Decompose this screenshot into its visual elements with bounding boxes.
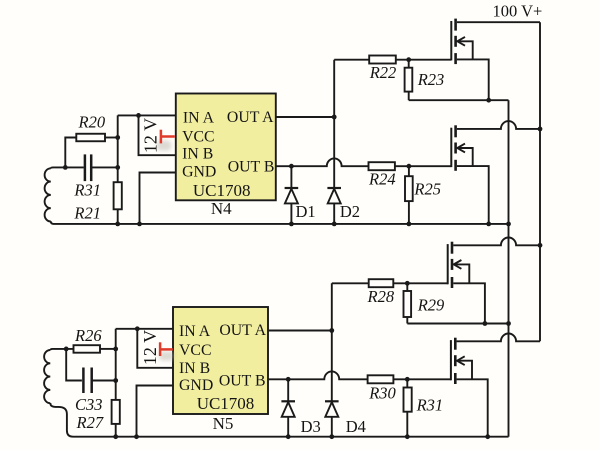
svg-text:N5: N5 <box>213 414 234 433</box>
wire OUT B <box>276 158 369 166</box>
resistor R21 <box>114 182 122 209</box>
svg-text:D4: D4 <box>346 417 366 436</box>
wire GND N5 <box>137 386 174 437</box>
diode D2 <box>327 188 341 224</box>
capacitor C33 <box>83 368 91 394</box>
transistor Q2 (second MOSFET) <box>451 121 540 224</box>
wire IN A <box>118 114 176 116</box>
svg-text:R22: R22 <box>369 63 397 82</box>
svg-text:IN A: IN A <box>179 323 211 340</box>
ground rail (top half) <box>54 223 509 225</box>
wire source node A <box>409 99 509 101</box>
resistor R24 <box>369 162 395 170</box>
svg-text:GND: GND <box>182 163 216 180</box>
node C1 <box>115 135 120 140</box>
wire R26 right <box>100 348 116 350</box>
svg-text:IN B: IN B <box>179 360 210 377</box>
svg-text:12 V: 12 V <box>140 118 160 153</box>
svg-text:OUT B: OUT B <box>228 159 275 176</box>
node E2 <box>135 326 140 331</box>
node A1 <box>63 165 68 170</box>
svg-text:R23: R23 <box>417 70 445 89</box>
wire to R22 <box>334 59 369 61</box>
node G1 <box>406 57 411 62</box>
resistor R29 <box>404 283 412 323</box>
node A2 <box>64 347 69 352</box>
node G4 <box>405 377 410 382</box>
wire stub down to C33 <box>66 349 82 381</box>
transistor Q1 (top MOSFET) <box>451 19 540 101</box>
node F1 <box>332 115 337 120</box>
node B2 <box>113 378 118 383</box>
svg-text:VCC: VCC <box>182 128 214 145</box>
node source mid <box>506 321 511 326</box>
svg-text:UC1708: UC1708 <box>193 181 251 200</box>
node GND rail bottom <box>134 434 139 439</box>
svg-text:R29: R29 <box>417 296 445 315</box>
12V supply tap (red, bottom) <box>160 342 173 356</box>
wire C33 right <box>92 380 116 382</box>
wire capacitor right <box>91 166 118 168</box>
svg-text:R31: R31 <box>416 396 444 415</box>
resistor R27 <box>112 400 120 424</box>
12V supply tap (red) <box>161 130 175 144</box>
svg-text:D1: D1 <box>296 202 316 221</box>
12V supply shadow (bottom) <box>159 352 174 361</box>
svg-text:IN B: IN B <box>182 146 213 163</box>
node C2 <box>113 347 118 352</box>
node G2 <box>407 164 412 169</box>
12V supply shadow <box>157 141 172 151</box>
svg-text:R20: R20 <box>78 113 106 132</box>
diode D1 <box>285 166 299 224</box>
svg-text:D3: D3 <box>301 417 321 436</box>
transistor Q4 (bottom MOSFET) <box>451 333 540 436</box>
svg-text:R26: R26 <box>74 326 102 345</box>
resistor R22 <box>369 56 396 64</box>
wire R24 to gate <box>395 165 451 167</box>
wire stub up to R20 <box>65 138 76 168</box>
wire GND N4 <box>140 173 177 224</box>
resistor R28 <box>369 279 394 287</box>
wire coil top to R26 <box>53 348 74 350</box>
svg-text:GND: GND <box>179 377 213 394</box>
svg-text:R24: R24 <box>368 170 396 189</box>
node Q3 drain to rail <box>538 243 543 248</box>
diode D3 <box>281 379 295 436</box>
wire OUT A <box>276 116 334 118</box>
capacitor C (labeled R31) <box>85 154 91 181</box>
node Q2 drain to rail <box>538 126 543 131</box>
svg-text:D2: D2 <box>340 202 360 221</box>
node GND rail <box>137 222 142 227</box>
node E1 <box>136 113 141 118</box>
svg-text:C33: C33 <box>75 395 103 414</box>
wire to IN B <box>139 115 177 155</box>
svg-text:R30: R30 <box>368 384 396 403</box>
node D1 top <box>289 164 294 169</box>
svg-text:R31: R31 <box>73 181 101 200</box>
svg-text:R27: R27 <box>76 413 104 432</box>
wire R30 to gate <box>393 378 451 380</box>
op-amp U2: IC N5 UC1708 <box>173 307 268 414</box>
resistor R25 <box>405 166 413 224</box>
svg-text:12 V: 12 V <box>140 330 160 365</box>
rail junction dots bottom <box>113 434 118 439</box>
svg-text:R25: R25 <box>413 180 441 199</box>
wire OUT A N5 <box>268 330 332 332</box>
transformer winding T1 (top) <box>45 167 54 224</box>
svg-text:OUT A: OUT A <box>227 109 274 126</box>
OUT A vertical wire (bottom) <box>331 283 333 401</box>
transistor Q3 (third MOSFET) <box>448 237 540 323</box>
node H2 <box>483 321 488 326</box>
wire IN A N5 <box>116 328 173 330</box>
common source vertical wire <box>508 100 510 437</box>
input vertical wire (bottom) <box>115 329 117 437</box>
wire to R28 <box>332 282 369 284</box>
input vertical wire <box>117 115 119 223</box>
wire to IN B N5 <box>137 329 173 368</box>
node D3 top <box>286 377 291 382</box>
node G3 <box>405 281 410 286</box>
node B1 <box>115 165 120 170</box>
resistor R31 (bottom) <box>404 379 412 436</box>
transformer winding T2 (bottom) <box>44 349 73 437</box>
svg-text:R21: R21 <box>73 204 101 223</box>
resistor R23 <box>405 60 413 100</box>
wire OUT B N5 <box>268 371 368 379</box>
resistor R30 <box>368 375 394 383</box>
wire R22 to gate <box>396 59 452 61</box>
node F2 <box>329 328 334 333</box>
resistor R26 <box>74 345 101 353</box>
node H1 <box>486 98 491 103</box>
svg-text:R28: R28 <box>367 287 395 306</box>
svg-text:OUT A: OUT A <box>219 322 266 339</box>
wire R20 right <box>105 137 118 139</box>
wire coil top to capacitor <box>53 166 84 168</box>
svg-text:UC1708: UC1708 <box>197 394 255 413</box>
100V+ power rail <box>539 22 541 341</box>
diode D4 <box>325 401 339 436</box>
op-amp U1: IC N4 UC1708 <box>176 94 276 201</box>
svg-text:OUT B: OUT B <box>219 373 266 390</box>
ground rail (bottom half) <box>73 436 509 438</box>
wire R28 to gate <box>393 282 447 284</box>
svg-text:IN A: IN A <box>183 110 215 127</box>
OUT A vertical wire <box>333 60 335 188</box>
svg-text:N4: N4 <box>211 199 232 218</box>
rail junction dots <box>115 222 120 227</box>
svg-text:100 V+: 100 V+ <box>493 2 543 21</box>
resistor R20 <box>76 134 105 142</box>
svg-text:VCC: VCC <box>179 342 211 359</box>
wire source node B <box>407 323 508 325</box>
